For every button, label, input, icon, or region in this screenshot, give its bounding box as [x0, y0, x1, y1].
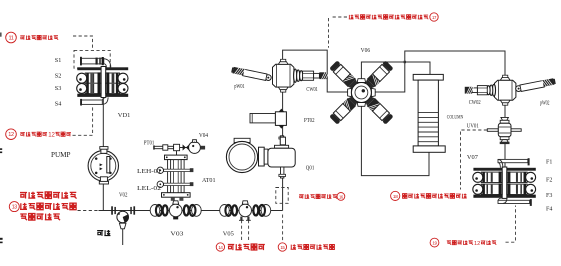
outlet labels F1-F4 — [546, 159, 552, 212]
leader note 19 — [506, 206, 516, 243]
svg-text:LEL-02: LEL-02 — [137, 185, 161, 192]
wire: V06 right port to CW02 top — [373, 51, 505, 92]
label CW01 — [306, 87, 318, 93]
outlet manifold valve V07 — [473, 158, 536, 206]
svg-text:PT01: PT01 — [144, 141, 155, 147]
valve V02 with drain — [111, 206, 135, 229]
svg-text:V03: V03 — [170, 231, 183, 238]
svg-text:F1: F1 — [546, 159, 552, 165]
svg-text:COLUMN: COLUMN — [447, 114, 464, 120]
svg-text:16: 16 — [339, 194, 344, 199]
pressure sensor PT01 — [153, 144, 179, 150]
rotary column-selection valve V06 — [329, 60, 393, 124]
label V06 — [361, 47, 371, 54]
wire: AT01 top line (PT01 - tee - V04) — [154, 147, 205, 149]
note 14 label: external filter — [216, 243, 265, 251]
label UV01 — [467, 124, 479, 130]
label VD1 — [118, 112, 131, 119]
wire: main process line (pump to Q01 branch corner) — [99, 210, 283, 212]
edge marks (cropped content at left border) — [0, 33, 3, 244]
leader note 13 — [78, 210, 99, 212]
valve V04 (vent valve on column top line) — [183, 140, 206, 154]
inlet manifold valve VD1 — [77, 67, 129, 106]
wire: VD1 outlet down through pump to main line — [102, 98, 104, 211]
label LEH-01 — [137, 168, 161, 175]
injection valve CW01 — [273, 59, 329, 92]
svg-text:AT01: AT01 — [202, 177, 216, 184]
leader note 11 — [73, 36, 93, 50]
svg-text:14: 14 — [218, 245, 223, 250]
svg-text:S1: S1 — [55, 57, 62, 64]
svg-text:V07: V07 — [467, 154, 478, 161]
svg-text:VD1: VD1 — [118, 112, 131, 119]
valve V03 (3-way under AT01) — [150, 201, 201, 220]
label V07 — [467, 154, 478, 161]
wire: CW02 bottom through UV01 to outlet manifold — [504, 98, 506, 168]
svg-text:pW01: pW01 — [234, 84, 245, 90]
wire: V02 drain line down to vent — [122, 211, 124, 246]
label PT01 — [144, 141, 155, 147]
svg-text:F4: F4 — [546, 207, 552, 213]
svg-text:13: 13 — [12, 205, 17, 211]
label COLUMN — [447, 114, 464, 120]
svg-text:S2: S2 — [55, 73, 62, 80]
optional bubble sensor tube above VD1 — [80, 57, 111, 68]
valve V05 (3-way, external filter ports) — [220, 201, 271, 221]
wire: V06 bottom port to COLUMN bottom — [361, 93, 429, 176]
optional inlet bubble sensor dashed box — [74, 50, 110, 68]
svg-text:15: 15 — [280, 245, 285, 250]
svg-text:V05: V05 — [223, 231, 234, 238]
label V02 — [119, 192, 128, 198]
inlet labels S1-S4 — [55, 57, 62, 107]
svg-text:PUMP: PUMP — [51, 151, 71, 159]
svg-text:S3: S3 — [55, 85, 62, 92]
label V05 — [223, 231, 234, 238]
svg-text:12: 12 — [8, 132, 14, 138]
svg-text:11: 11 — [8, 35, 13, 41]
optional bubble sensor dashed box before Q01 — [276, 188, 288, 204]
label Q01 — [306, 166, 315, 172]
note 19 label: up to 12 outlet valves — [430, 238, 496, 247]
wire: tee down into AT01 column top — [176, 148, 178, 157]
note 12 label: up to 12 inlet valves — [6, 129, 71, 140]
svg-text:17: 17 — [432, 15, 437, 20]
injection valve CW02 — [465, 75, 516, 105]
label AT01 — [202, 177, 216, 184]
vent label (pai kong) — [97, 230, 110, 236]
svg-text:S4: S4 — [55, 100, 62, 107]
leader note 12 — [73, 107, 93, 136]
svg-text:19: 19 — [432, 241, 437, 246]
svg-text:V02: V02 — [119, 192, 128, 198]
label V03 — [170, 231, 183, 238]
svg-text:UV01: UV01 — [467, 124, 479, 130]
note 13 label: add second pump/valves dual system — [9, 192, 76, 220]
leader note 18 — [461, 130, 488, 190]
label pW02 — [540, 101, 550, 107]
svg-text:CW02: CW02 — [469, 100, 481, 106]
detector UV01 (optional, dual wavelength) — [487, 117, 521, 142]
handle pW01 of CW01 — [231, 67, 271, 81]
pump Q01 (piston pump with motor) — [226, 136, 295, 178]
pump PUMP symbol — [88, 147, 118, 184]
label CW02 — [469, 100, 481, 106]
note 15 label: optional dedicated loading valve — [278, 243, 335, 251]
packed column AT01 — [157, 155, 193, 201]
svg-text:12: 12 — [474, 241, 480, 247]
pressure sensor PT02 — [250, 109, 286, 145]
label LEL-02 — [137, 185, 161, 192]
label PUMP — [51, 151, 71, 159]
svg-text:F2: F2 — [546, 178, 552, 184]
svg-text:18: 18 — [393, 194, 398, 200]
label V04 — [199, 133, 208, 139]
svg-text:12: 12 — [48, 133, 55, 139]
svg-text:CW01: CW01 — [306, 87, 318, 93]
label pW01 — [234, 84, 245, 90]
leader note 15 — [282, 215, 284, 241]
label PT02 — [304, 118, 315, 124]
separation column COLUMN — [413, 74, 445, 152]
leader note 17 — [329, 17, 348, 48]
svg-text:LEH-01: LEH-01 — [137, 168, 161, 175]
svg-text:F3: F3 — [546, 193, 552, 199]
note 18 label: optional dual-wavelength detector — [391, 191, 467, 200]
handle pW02 of CW02 — [516, 78, 556, 91]
note 11 label: optional bubble sensor — [6, 32, 58, 43]
leader note 14 — [242, 220, 249, 241]
wire: Q01 branch riser up to CW01 and over to V06 left port — [283, 50, 350, 210]
svg-text:pW02: pW02 — [540, 101, 550, 107]
svg-text:V06: V06 — [361, 47, 371, 54]
note 16 label: optional bubble sensor — [299, 193, 345, 201]
fitting above outlet manifold — [500, 142, 510, 144]
note 17 label: add column valves for multi-column system — [349, 13, 438, 21]
svg-text:PT02: PT02 — [304, 118, 315, 124]
wire: V06 top port to COLUMN top — [361, 62, 430, 93]
svg-text:V04: V04 — [199, 133, 208, 139]
wire: junction fitting at crossing — [404, 61, 406, 63]
svg-text:Q01: Q01 — [306, 166, 315, 172]
